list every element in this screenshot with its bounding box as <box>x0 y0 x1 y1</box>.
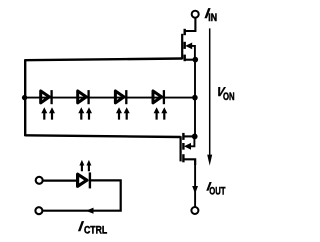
M1 source channel dash <box>183 55 185 62</box>
wire bottom rail (gates) <box>25 135 180 137</box>
photodiode D3 <box>115 90 129 120</box>
arrow ICTRL current direction <box>86 208 94 214</box>
terminal IIN <box>192 11 199 18</box>
svg-text:ON: ON <box>223 91 235 103</box>
M1 body arrow <box>185 43 192 50</box>
label IOUT <box>206 179 226 197</box>
M2 drain channel dash <box>182 133 184 140</box>
wire terminal to M1 drain <box>185 18 195 31</box>
M2 body arrow <box>184 143 191 150</box>
M2 body lead <box>190 137 194 146</box>
junction dot chain left end <box>22 95 27 100</box>
M2 gate bar <box>180 136 182 161</box>
D3 light arrow b <box>124 107 130 119</box>
D2 light arrow a <box>78 107 84 119</box>
arrow IOUT current direction <box>192 186 198 194</box>
junction dot chain right end <box>192 95 198 101</box>
M1 body lead <box>191 46 195 60</box>
M2 source channel dash <box>182 154 184 162</box>
M1 drain channel dash <box>183 29 185 35</box>
LED DCTRL <box>78 160 92 189</box>
wire M2 source to IOUT terminal <box>194 159 196 207</box>
D1 light arrow a <box>41 107 47 119</box>
LED emission arrow a <box>79 160 84 171</box>
arrow VON (voltage across switch) <box>207 28 212 165</box>
M1 body channel dash <box>183 42 185 49</box>
label IIN <box>204 5 217 24</box>
M2 drain lead <box>184 135 195 137</box>
M2 body channel dash <box>182 143 184 150</box>
label ICTRL <box>77 218 107 237</box>
D1 light arrow b <box>49 107 55 119</box>
photodiode D1 <box>41 90 55 120</box>
D2 light arrow b <box>86 107 92 119</box>
terminal ICTRL minus <box>35 207 42 214</box>
transistor M2 (bottom MOSFET) <box>181 133 196 165</box>
D4 light arrow b <box>161 107 167 119</box>
M2 source lead <box>184 159 196 165</box>
wire photodiode chain line <box>25 97 195 99</box>
wire left rail <box>24 59 26 136</box>
junction dot M2 drain / rail <box>192 134 198 140</box>
photodiode D2 <box>78 90 92 120</box>
wire main rail (common node) <box>194 60 196 137</box>
D4 light arrow a <box>154 107 160 119</box>
wire ctrl terminal to LED <box>43 180 78 182</box>
svg-text:IN: IN <box>208 12 217 24</box>
junction dot M1 source / rail <box>193 57 199 63</box>
photodiode D4 <box>153 90 167 120</box>
terminal IOUT <box>191 207 198 214</box>
D3 light arrow a <box>116 107 122 119</box>
M1 source lead <box>185 59 196 61</box>
LED emission arrow b <box>86 160 91 171</box>
wire LED cathode to loop right side and bottom return <box>43 180 121 210</box>
transistor M1 (top MOSFET) <box>182 29 195 61</box>
svg-text:OUT: OUT <box>209 185 225 197</box>
M1 gate bar <box>181 34 183 60</box>
svg-text:CTRL: CTRL <box>84 225 107 237</box>
wire top rail (gates) <box>25 59 182 61</box>
label VON <box>216 84 235 103</box>
terminal ICTRL plus <box>36 177 43 184</box>
